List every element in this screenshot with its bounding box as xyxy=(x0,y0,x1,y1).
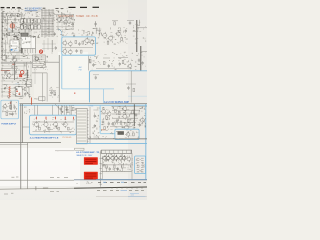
capacitor C5 xyxy=(5,56,7,58)
wire bus xyxy=(101,170,131,172)
wire xyxy=(112,113,140,115)
scan streak xyxy=(0,148,80,186)
wire xyxy=(62,47,93,49)
section line (blue) xyxy=(76,142,147,144)
capacitor C12 xyxy=(129,22,131,24)
capacitor C29 xyxy=(116,120,118,122)
wire xyxy=(2,52,35,98)
wire xyxy=(33,117,75,133)
resistor R25 xyxy=(115,109,117,112)
box E contents 2 xyxy=(141,157,144,159)
svg-text:IC801: IC801 xyxy=(88,106,93,108)
transistor Q6 xyxy=(7,74,11,78)
node B (blue) xyxy=(11,49,12,50)
wire (blue) bend xyxy=(58,29,62,37)
capacitor C28 xyxy=(94,125,96,127)
faint blue line xyxy=(128,95,147,97)
transistor Q8 xyxy=(85,39,89,43)
IC U6 pins xyxy=(87,110,88,112)
capacitor C27 xyxy=(94,115,96,117)
resistor R23 xyxy=(106,116,108,119)
power transistor Q26a xyxy=(103,156,107,160)
capacitor C8 xyxy=(15,71,17,73)
main rule dark right xyxy=(74,187,147,188)
box E contents xyxy=(137,157,140,159)
transistor Q17 xyxy=(54,122,58,126)
wire xyxy=(1,12,3,60)
scan blotch xyxy=(84,20,147,46)
wire xyxy=(1,41,31,62)
scan blotch xyxy=(96,106,147,130)
wire tick xyxy=(1,37,3,39)
wire xyxy=(101,153,133,172)
wire xyxy=(89,107,91,144)
wire xyxy=(37,105,39,115)
IC U6 (tall hatched) xyxy=(76,108,87,143)
wire xyxy=(52,40,54,52)
box U2 pins xyxy=(21,49,23,54)
transistor Q12 xyxy=(116,32,120,36)
capacitor C18 xyxy=(108,65,110,67)
sub-rule ticks xyxy=(111,187,113,188)
box U4 xyxy=(26,80,31,87)
capacitor C33 xyxy=(117,168,119,170)
transistor Q5 xyxy=(13,58,17,62)
wire xyxy=(102,156,104,180)
wire xyxy=(60,12,62,18)
red mark xyxy=(45,117,47,120)
resistor R31c xyxy=(127,119,129,122)
faint rule C xyxy=(96,195,147,197)
wire xyxy=(1,64,31,99)
wire xyxy=(139,20,141,26)
svg-text:4-11: 4-11 xyxy=(131,195,134,197)
wire tick xyxy=(135,31,138,33)
wire xyxy=(95,29,97,34)
wire tick xyxy=(1,45,3,47)
wire xyxy=(3,103,17,116)
thermistor TH1 (red hatch) xyxy=(9,86,11,97)
resistor R32 xyxy=(75,41,77,44)
wire xyxy=(60,30,93,36)
wire (red segment) xyxy=(1,70,10,72)
title dash xyxy=(80,6,87,8)
wire xyxy=(2,11,40,40)
capacitor C35 xyxy=(75,50,77,52)
wire xyxy=(131,153,133,179)
wire xyxy=(26,62,28,70)
svg-text:FM: FM xyxy=(79,70,82,72)
red pad 2 xyxy=(16,91,17,92)
wire xyxy=(63,105,65,115)
wire xyxy=(4,40,6,56)
resistor R16 xyxy=(10,105,12,108)
capacitor C30 xyxy=(135,114,137,116)
transistor Q34 (red mark) xyxy=(39,50,42,53)
resistor R3 xyxy=(70,15,72,18)
box U3 xyxy=(16,87,23,97)
box U2 xyxy=(21,37,36,49)
wire xyxy=(69,105,71,115)
box U3 pins xyxy=(16,87,18,89)
red mark xyxy=(35,117,37,120)
power transistor Q27a xyxy=(111,156,115,160)
resistor R31b xyxy=(120,121,122,124)
wire xyxy=(25,10,41,12)
scan streak xyxy=(58,52,88,100)
paper background xyxy=(0,0,148,201)
title dash xyxy=(55,7,58,9)
section box B (blue) xyxy=(1,100,19,119)
connector CN2 pin row xyxy=(20,25,23,29)
diagonal wire xyxy=(55,104,63,113)
wire tick xyxy=(135,37,138,39)
resistor R8 xyxy=(54,92,56,95)
resistor R21 xyxy=(58,127,60,130)
capacitor C14 xyxy=(138,59,140,61)
wire xyxy=(54,14,74,16)
section line (blue) 2 xyxy=(96,178,147,180)
capacitor C7 xyxy=(4,71,6,73)
wire xyxy=(112,121,136,123)
wire xyxy=(11,13,13,18)
wire tick xyxy=(135,23,138,25)
transistor Q10 xyxy=(103,33,107,37)
wire xyxy=(1,62,32,64)
fine print row B xyxy=(97,190,100,192)
transistor Q25 xyxy=(126,133,130,137)
capacitor C1 xyxy=(4,19,6,21)
resistor R29 xyxy=(106,165,108,168)
section box A (blue) xyxy=(62,37,96,55)
wire xyxy=(60,105,76,114)
wire xyxy=(28,87,30,97)
transistor Q13 xyxy=(128,64,132,68)
section box D (blue) xyxy=(115,129,139,139)
wire xyxy=(87,56,89,71)
capacitor C37 xyxy=(55,47,57,49)
wire xyxy=(110,125,132,127)
wire xyxy=(116,131,139,139)
section line (blue) xyxy=(20,104,148,106)
wire xyxy=(43,10,75,37)
wire xyxy=(9,31,20,33)
resistor R28 xyxy=(133,133,135,136)
resistor R18 xyxy=(72,107,74,110)
capacitor C9 xyxy=(24,93,26,95)
section box (blue) xyxy=(90,71,148,103)
small box xyxy=(75,148,85,150)
wire bus xyxy=(21,104,23,143)
wire xyxy=(99,28,101,35)
resistor ladder R4 xyxy=(21,48,23,54)
wire xyxy=(101,106,146,128)
wire xyxy=(141,51,147,53)
wire tick xyxy=(1,29,3,31)
capacitor C24 xyxy=(66,109,68,111)
wire xyxy=(112,109,140,111)
wire xyxy=(130,71,132,103)
wire xyxy=(57,105,59,115)
wire bus xyxy=(27,143,29,189)
section box C (blue) xyxy=(30,115,77,135)
transistor Q16 xyxy=(44,122,48,126)
transistor Q19 xyxy=(102,110,106,114)
section divider (blue) xyxy=(61,55,63,89)
title dash xyxy=(93,6,100,8)
wire xyxy=(42,73,44,102)
wire xyxy=(105,168,107,171)
resistor R26 xyxy=(118,111,120,114)
wire xyxy=(1,12,18,14)
fine print above-rule left xyxy=(11,176,14,178)
thick blue wire xyxy=(100,133,115,135)
relay box K1 inner xyxy=(12,42,17,44)
red dash xyxy=(12,63,14,65)
wire bus xyxy=(14,62,16,80)
resistor R7 xyxy=(24,87,26,90)
transistor Q20 xyxy=(107,112,111,116)
fine print row A xyxy=(98,181,101,183)
red dot xyxy=(74,93,75,94)
fine print blue bits xyxy=(103,181,106,183)
svg-text:P.C.B 4-5: P.C.B 4-5 xyxy=(63,137,73,139)
wire xyxy=(93,136,98,138)
wire xyxy=(56,26,74,28)
wire bus xyxy=(101,164,131,166)
wire xyxy=(3,111,16,113)
transistor Q29b xyxy=(127,157,131,161)
wire xyxy=(121,153,123,156)
wire xyxy=(49,89,56,91)
resistor R9 xyxy=(114,22,116,25)
capacitor C16 xyxy=(119,63,121,65)
wire ladder xyxy=(100,150,102,186)
wire xyxy=(46,73,48,102)
wire xyxy=(127,19,134,21)
resistor R6 (red) xyxy=(20,74,22,76)
capacitor C11 xyxy=(94,23,96,25)
wire xyxy=(24,29,26,35)
transistor Q30 xyxy=(63,41,67,45)
capacitor C19 xyxy=(127,87,129,89)
power transistor Q28a xyxy=(119,156,123,160)
transistor Q7 xyxy=(35,57,39,61)
wire xyxy=(77,181,93,184)
transistor Q31 xyxy=(69,42,73,46)
wire bus xyxy=(1,15,25,17)
transistor Q15 xyxy=(34,122,38,126)
resistor R24 xyxy=(104,127,106,130)
wire xyxy=(112,20,118,22)
wire xyxy=(118,57,128,59)
transistor Q22 xyxy=(123,114,127,118)
red dot xyxy=(10,102,11,103)
wire bus xyxy=(133,104,135,126)
wire xyxy=(2,68,18,70)
resistor R13 xyxy=(89,59,91,62)
fuse box F1 xyxy=(39,97,45,101)
capacitor C21 xyxy=(13,106,15,108)
wire xyxy=(24,83,31,85)
title dash xyxy=(1,7,5,9)
wire xyxy=(105,153,107,156)
capacitor C3 xyxy=(15,35,17,37)
wire xyxy=(0,142,61,144)
fine print left B xyxy=(11,192,13,194)
transistor Q14 xyxy=(3,105,6,108)
capacitor C32 xyxy=(109,168,111,170)
transistor Q33 xyxy=(69,50,73,54)
dark rule xyxy=(88,138,147,140)
main rule tick xyxy=(35,186,37,190)
resistor R20 xyxy=(48,127,50,130)
long wire (blue-gray) xyxy=(74,179,147,181)
terminal strip xyxy=(101,150,131,153)
bottom left mark xyxy=(4,193,8,195)
wire xyxy=(136,159,145,171)
svg-text:4-2-4 HEADPHONE AMP P.C.B: 4-2-4 HEADPHONE AMP P.C.B xyxy=(30,137,59,140)
svg-text:POWER SUPPLY: POWER SUPPLY xyxy=(1,124,16,126)
title dash xyxy=(12,7,15,9)
node C xyxy=(27,92,28,93)
wire xyxy=(1,20,32,59)
capacitor C31 xyxy=(139,124,141,126)
wire xyxy=(33,131,75,133)
title blue underline xyxy=(25,9,38,11)
scan blotch xyxy=(0,10,58,44)
wire xyxy=(96,68,132,70)
transistor Q4 xyxy=(2,55,7,60)
wire xyxy=(6,16,8,22)
title dash xyxy=(61,8,64,10)
wire xyxy=(2,78,26,80)
red mark xyxy=(55,117,57,120)
transistor Q24 xyxy=(140,118,144,122)
capacitor C10 xyxy=(51,91,53,93)
scan streak xyxy=(128,0,147,200)
wire tick xyxy=(1,21,3,23)
wire xyxy=(34,105,36,115)
svg-text:4-2-3 POWER AMP · TR: 4-2-3 POWER AMP · TR xyxy=(76,151,99,154)
resistor R15 xyxy=(133,88,135,91)
resistor R17 xyxy=(6,112,8,115)
section box E (blue) xyxy=(135,156,146,174)
transistor Q11 xyxy=(109,36,113,40)
capacitor C31b xyxy=(112,123,114,125)
wire xyxy=(22,126,29,128)
wire xyxy=(121,168,123,171)
relay box K1 xyxy=(10,40,19,52)
section divider (blue) drop xyxy=(103,89,105,104)
wire xyxy=(3,32,20,40)
wire bus xyxy=(136,20,138,52)
red block 2 text xyxy=(85,173,96,175)
transistor Q21 xyxy=(123,107,127,111)
scan blotch xyxy=(0,44,34,102)
main rule label xyxy=(43,187,48,189)
node D xyxy=(58,107,59,108)
red mark xyxy=(73,117,75,119)
capacitor C2 xyxy=(14,18,16,20)
wire pair xyxy=(9,101,11,110)
wire xyxy=(5,8,71,10)
capacitor C23 xyxy=(60,108,62,110)
wire xyxy=(21,22,42,24)
resistor R1 xyxy=(18,14,20,17)
wire xyxy=(56,12,74,30)
wire xyxy=(33,56,48,70)
thick blue wire xyxy=(99,105,101,133)
wire bus xyxy=(140,46,142,71)
wire xyxy=(112,106,147,108)
main rule xyxy=(0,187,147,189)
capacitor C6 xyxy=(12,57,14,59)
resistor R11 xyxy=(121,37,123,40)
long wire xyxy=(0,179,74,181)
wire bus xyxy=(20,104,22,189)
red block text xyxy=(85,158,96,160)
resistor R27 xyxy=(132,110,134,113)
capacitor C17 xyxy=(92,64,94,66)
wire xyxy=(32,72,47,74)
red pad 1 xyxy=(19,93,21,95)
title dash xyxy=(43,7,46,9)
wire xyxy=(5,16,36,62)
wire xyxy=(24,106,33,114)
wire xyxy=(55,150,74,152)
transistor Q32 xyxy=(63,50,67,54)
fine print blue B xyxy=(121,189,128,191)
transistor Q3 xyxy=(64,20,68,24)
wire xyxy=(61,105,63,115)
wire xyxy=(93,74,99,76)
wire xyxy=(103,57,110,59)
wire xyxy=(89,52,146,70)
transistor Q23 xyxy=(125,125,129,129)
transistor Q18 xyxy=(63,122,67,126)
wire xyxy=(95,21,97,27)
wire xyxy=(90,129,114,139)
wire bus xyxy=(20,102,148,104)
wire xyxy=(96,30,101,32)
power transistor Q28b xyxy=(122,156,126,160)
cable bundle xyxy=(40,9,42,37)
wire ladder xyxy=(1,40,3,58)
title dash xyxy=(69,6,76,8)
wire xyxy=(137,27,147,29)
block PB (dark) xyxy=(118,131,124,135)
transistor Q2 xyxy=(57,18,61,22)
wire xyxy=(1,8,22,16)
diode D1 xyxy=(26,70,28,78)
wire bus xyxy=(58,55,60,102)
blue marks bottom xyxy=(130,193,139,195)
wire xyxy=(42,38,56,54)
wire xyxy=(1,66,31,96)
transistor Q1 (red mark) xyxy=(10,24,15,29)
connector CN1 pin row xyxy=(20,19,23,23)
wire xyxy=(113,153,115,156)
resistor R19 xyxy=(39,127,41,130)
transistor Q5r (red) xyxy=(20,71,24,75)
wire (blue) right edge xyxy=(145,104,147,180)
capacitor C36 xyxy=(53,33,55,35)
transistor Q9 xyxy=(90,40,94,44)
capacitor C15 xyxy=(141,62,143,64)
highlight block (red) xyxy=(84,157,98,165)
title dash xyxy=(17,7,20,9)
